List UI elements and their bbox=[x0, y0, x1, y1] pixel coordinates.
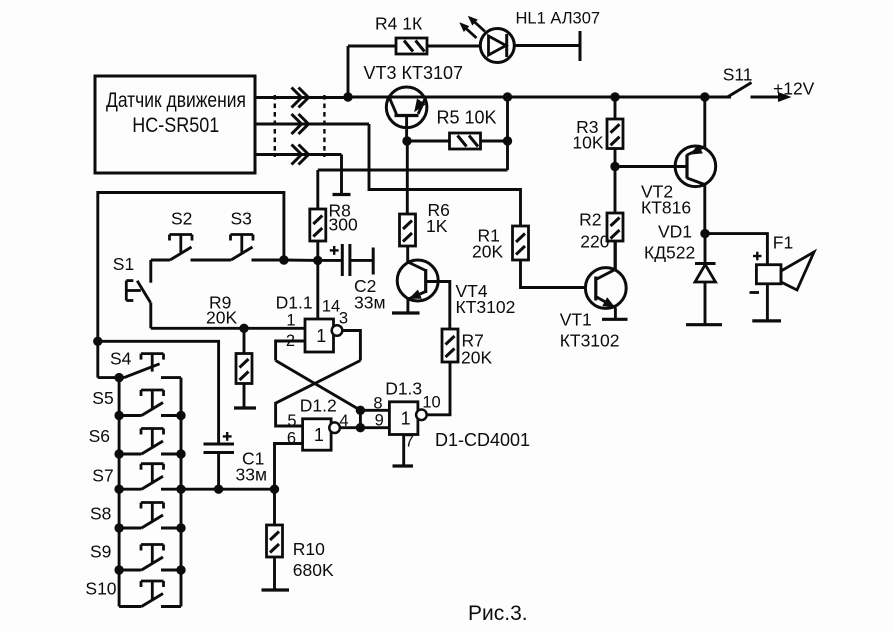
resistor R8 bbox=[310, 170, 358, 260]
node VT2col-VD1-F1 bbox=[700, 229, 709, 238]
LED HL1 bbox=[459, 10, 600, 63]
wire out3-gnd bbox=[340, 155, 343, 195]
svg-text:S4: S4 bbox=[110, 349, 132, 369]
connector boundary dashed line left bbox=[274, 95, 276, 157]
connector chevron arrow out2 bbox=[292, 114, 309, 134]
wire cross diag A bbox=[276, 361, 361, 411]
svg-text:220: 220 bbox=[580, 232, 609, 252]
node VT3 base bbox=[402, 136, 411, 145]
wire S2-S3 bbox=[191, 259, 232, 262]
wire sensor out3 bbox=[255, 153, 342, 156]
svg-text:R4 1К: R4 1К bbox=[375, 14, 423, 34]
wire HL1-terminal bbox=[514, 44, 580, 47]
wire VT4base-R7 bbox=[426, 282, 450, 330]
node rail-R3 bbox=[610, 92, 619, 101]
label +12V bbox=[773, 79, 815, 99]
svg-text:5: 5 bbox=[287, 412, 296, 430]
resistor R1 bbox=[472, 226, 529, 262]
resistor R6 bbox=[400, 200, 450, 246]
node R3-R2-VT2base bbox=[610, 162, 619, 171]
node left rail S9 bbox=[114, 565, 123, 574]
svg-text:10K: 10K bbox=[572, 133, 603, 153]
logic gate D1.2 bbox=[287, 396, 349, 451]
node left rail S5 bbox=[114, 411, 123, 420]
ground R9 bbox=[234, 406, 256, 409]
wire R4 branch bbox=[348, 46, 396, 97]
wire sensor out1 bbox=[255, 96, 348, 99]
wire S1-D1.1pin1 bbox=[151, 327, 305, 330]
transistor VT4 bbox=[397, 260, 515, 317]
wire R7-D1.3out bbox=[427, 362, 450, 415]
svg-text:КД522: КД522 bbox=[644, 243, 695, 263]
node D1.3 pin9 bbox=[356, 423, 365, 432]
node left rail S7 bbox=[114, 485, 123, 494]
svg-text:20K: 20K bbox=[461, 348, 492, 368]
switch S3 bbox=[231, 209, 254, 261]
buzzer F1 bbox=[750, 233, 815, 321]
switch S1 bbox=[113, 254, 151, 328]
transistor VT2 bbox=[615, 97, 716, 234]
svg-text:Датчик движения: Датчик движения bbox=[106, 88, 246, 112]
resistor R4 bbox=[375, 14, 427, 55]
svg-text:КТ3102: КТ3102 bbox=[456, 297, 516, 317]
svg-text:1K: 1K bbox=[426, 216, 448, 236]
node R5 right bbox=[503, 136, 512, 145]
svg-text:1: 1 bbox=[314, 425, 324, 445]
svg-text:1: 1 bbox=[401, 409, 411, 429]
wire C1-line bbox=[217, 453, 220, 490]
svg-text:S1: S1 bbox=[113, 254, 134, 274]
wire D1.1 pin14 bbox=[316, 260, 319, 319]
wire +12V arrow bbox=[751, 92, 792, 102]
ground D1.3 pin7 bbox=[393, 464, 414, 467]
svg-text:3: 3 bbox=[339, 310, 348, 328]
switch S7 bbox=[92, 464, 181, 490]
svg-text:33м: 33м bbox=[354, 293, 386, 313]
node right rail S6 bbox=[176, 449, 185, 458]
wire VT3base-R6 bbox=[406, 141, 409, 214]
node right rail S7 bbox=[176, 485, 185, 494]
svg-text:D1-CD4001: D1-CD4001 bbox=[435, 430, 530, 450]
wire node-C2 bbox=[318, 259, 341, 262]
svg-text:S8: S8 bbox=[90, 504, 111, 524]
resistor R2 bbox=[579, 167, 623, 270]
svg-text:1: 1 bbox=[316, 326, 326, 346]
caption bbox=[468, 602, 528, 625]
wire C2-terminal bbox=[351, 259, 372, 262]
terminal bar HL1 cathode bbox=[579, 31, 582, 61]
switch S8 bbox=[90, 503, 181, 529]
wire R1-VT1base bbox=[521, 260, 586, 288]
wire S1-S2 bbox=[151, 259, 170, 262]
svg-text:S2: S2 bbox=[171, 209, 192, 229]
svg-text:D1.2: D1.2 bbox=[300, 396, 337, 416]
svg-text:9: 9 bbox=[375, 412, 384, 430]
node C1 bottom bbox=[214, 485, 223, 494]
svg-text:14: 14 bbox=[322, 298, 340, 316]
ground F1 bbox=[752, 319, 781, 322]
node R10 top bbox=[270, 485, 279, 494]
svg-text:HL1 АЛ307: HL1 АЛ307 bbox=[516, 10, 601, 28]
wire S7row-R10 bbox=[181, 488, 275, 491]
connector boundary dashed line right bbox=[323, 95, 325, 157]
logic gate D1.1 bbox=[276, 293, 348, 353]
resistor R9 bbox=[206, 293, 252, 409]
svg-text:КТ816: КТ816 bbox=[641, 198, 691, 218]
label D1 type bbox=[435, 430, 530, 450]
node right rail S9 bbox=[176, 565, 185, 574]
wire pin8-pin9 link bbox=[359, 410, 362, 427]
sensor module A1 HC-SR501 bbox=[95, 76, 255, 173]
wire to pin9 bbox=[360, 426, 389, 429]
diode VD1 bbox=[644, 222, 716, 325]
svg-text:S7: S7 bbox=[92, 466, 113, 486]
node rail-S11 bbox=[700, 92, 709, 101]
transistor VT3 bbox=[364, 63, 464, 141]
wire R5-right bbox=[481, 140, 508, 143]
wire rail-C1 bbox=[98, 341, 219, 444]
wire +12V rail bbox=[348, 96, 731, 99]
node D1.3 pin8 bbox=[356, 406, 365, 415]
wire rail-R5-R8 bbox=[318, 97, 508, 170]
ground sensor bbox=[333, 193, 351, 196]
svg-text:S6: S6 bbox=[89, 426, 110, 446]
node right rail S8 bbox=[176, 523, 185, 532]
switch S9 bbox=[90, 542, 181, 571]
svg-text:S3: S3 bbox=[231, 209, 252, 229]
node left rail S6 bbox=[114, 449, 123, 458]
node C2-R8-pin14 bbox=[313, 256, 322, 265]
wire D1.2 pin4 out bbox=[340, 426, 361, 429]
transistor VT1 bbox=[560, 241, 626, 351]
svg-text:D1.1: D1.1 bbox=[276, 293, 313, 313]
svg-text:F1: F1 bbox=[773, 233, 793, 253]
wire cross diag B bbox=[276, 361, 361, 427]
ground VD1 bbox=[686, 323, 722, 326]
switch S10 bbox=[85, 579, 181, 607]
wire matrix right rail bbox=[180, 378, 183, 607]
wire VT3base-R5 bbox=[407, 140, 450, 143]
resistor R5 bbox=[437, 108, 497, 150]
wire node-F1 bbox=[705, 234, 767, 265]
node right rail S5 bbox=[176, 411, 185, 420]
ground VT4 emitter bbox=[392, 311, 420, 314]
wire sensor out2 bbox=[255, 123, 369, 126]
switch S2 bbox=[170, 209, 193, 261]
wire R6-VT4col bbox=[406, 246, 409, 262]
wire D1.3 pin7 bbox=[402, 435, 405, 466]
wire R4-HL1 bbox=[427, 45, 480, 48]
svg-text:VT3 КТ3107: VT3 КТ3107 bbox=[364, 63, 464, 83]
svg-text:300: 300 bbox=[329, 215, 358, 235]
svg-text:680K: 680K bbox=[293, 560, 334, 580]
capacitor C2 bbox=[330, 244, 386, 313]
svg-text:20K: 20K bbox=[206, 308, 237, 328]
wire to pin8 bbox=[360, 409, 389, 412]
wire D1.1 pin2 bbox=[276, 341, 305, 361]
svg-text:R10: R10 bbox=[293, 539, 325, 559]
wire top loop bbox=[98, 193, 284, 378]
connector chevron arrow out1 bbox=[292, 88, 309, 108]
wire matrix left rail bbox=[118, 378, 121, 607]
ground VT1 emitter bbox=[602, 318, 628, 321]
svg-text:20K: 20K bbox=[472, 242, 503, 262]
resistor R3 bbox=[572, 97, 623, 167]
node S3-loop bbox=[279, 255, 288, 264]
switch S6 bbox=[89, 426, 181, 454]
svg-text:КТ3102: КТ3102 bbox=[560, 331, 620, 351]
terminal bar C2 right bbox=[372, 248, 375, 275]
svg-text:33м: 33м bbox=[236, 465, 268, 485]
svg-text:S10: S10 bbox=[85, 579, 116, 599]
connector chevron arrow out3 bbox=[292, 145, 309, 165]
svg-text:+12V: +12V bbox=[773, 79, 815, 99]
svg-text:D1.3: D1.3 bbox=[385, 379, 422, 399]
svg-text:R2: R2 bbox=[579, 210, 601, 230]
svg-text:R5 10K: R5 10K bbox=[437, 108, 497, 128]
node R9 top bbox=[239, 324, 248, 333]
resistor R10 bbox=[267, 489, 334, 590]
switch S5 bbox=[92, 388, 181, 416]
capacitor C1 bbox=[204, 432, 268, 485]
wire S3-node bbox=[252, 259, 284, 262]
switch S11 bbox=[705, 65, 753, 98]
node rail-R5 bbox=[503, 92, 512, 101]
node left rail S4 bbox=[114, 373, 123, 382]
svg-text:Рис.3.: Рис.3. bbox=[468, 602, 528, 625]
svg-text:10: 10 bbox=[422, 394, 440, 412]
svg-text:VD1: VD1 bbox=[658, 222, 692, 242]
logic gate D1.3 bbox=[373, 379, 440, 451]
wire out2 route bbox=[369, 124, 521, 226]
node left rail S8 bbox=[114, 523, 123, 532]
wire D1.2 pin6 bbox=[275, 444, 303, 490]
resistor R7 bbox=[442, 329, 492, 368]
svg-text:S5: S5 bbox=[92, 388, 113, 408]
svg-text:S9: S9 bbox=[90, 542, 111, 562]
svg-text:1: 1 bbox=[286, 312, 295, 330]
node rail-R4 bbox=[343, 92, 352, 101]
wire D1.1 pin3 out bbox=[342, 331, 360, 361]
svg-text:S11: S11 bbox=[723, 65, 753, 85]
svg-text:8: 8 bbox=[373, 395, 382, 413]
ground R10 bbox=[262, 588, 290, 591]
svg-text:HC-SR501: HC-SR501 bbox=[132, 113, 219, 137]
wire S3node-C2node bbox=[284, 259, 318, 262]
switch S4 bbox=[98, 349, 181, 378]
node left rail C1 bbox=[93, 337, 102, 346]
svg-text:VT1: VT1 bbox=[560, 310, 592, 330]
svg-text:7: 7 bbox=[405, 433, 414, 451]
